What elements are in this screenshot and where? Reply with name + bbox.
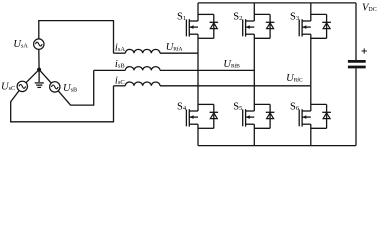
wire: node to UsB [39, 70, 51, 84]
wire: leg3 source to phase C [310, 34, 312, 86]
AC source UsB [50, 82, 60, 92]
svg-text:URfC: URfC [286, 73, 303, 84]
svg-text:S2: S2 [233, 12, 242, 23]
wire: phase C left segment [114, 85, 126, 87]
transistor S6 [299, 109, 311, 126]
capacitor C (DC link) [348, 3, 366, 146]
svg-text:S1: S1 [177, 12, 186, 23]
svg-text:VDC: VDC [362, 2, 377, 13]
wire: leg1 midpoint down to S4 [197, 53, 199, 111]
wire: DC+ top rail [198, 2, 356, 4]
wire: UsB down to feeder of phase B [58, 70, 93, 105]
svg-text:S6: S6 [290, 101, 300, 112]
svg-text:S3: S3 [290, 12, 300, 23]
svg-text:S4: S4 [177, 101, 187, 112]
ground [35, 70, 44, 88]
AC source UsA [34, 39, 44, 49]
inductor LB [125, 67, 160, 71]
wire: node to UsC [26, 70, 39, 83]
wire: phase A right segment [160, 52, 198, 54]
wire: leg1 drain drop [197, 3, 199, 21]
wire: S4 source to bottom rail [197, 124, 199, 145]
node: star point [37, 68, 41, 72]
inductor LA [125, 49, 160, 53]
diode D3 [311, 14, 331, 38]
diode D5 [254, 104, 274, 128]
diode D1 [198, 14, 218, 38]
wire: UsA bottom lead to star node [38, 49, 40, 69]
transistor S1 [186, 19, 198, 36]
svg-text:isC: isC [115, 75, 125, 86]
label + polarity [362, 48, 367, 53]
svg-text:isB: isB [115, 59, 125, 70]
wire: phase C right segment [160, 85, 311, 87]
AC source UsC [17, 81, 27, 91]
svg-text:UsA: UsA [13, 39, 28, 50]
wire: S6 source to bottom rail [310, 124, 312, 145]
wire: leg1 source to phase A [197, 34, 199, 53]
svg-text:UsC: UsC [1, 82, 15, 93]
svg-text:isA: isA [115, 43, 125, 54]
wire: phase B right segment [160, 69, 254, 71]
svg-text:URfA: URfA [166, 42, 183, 53]
transistor S3 [299, 19, 311, 36]
wire: S5 source to bottom rail [253, 124, 255, 145]
wire: phase B left segment [94, 69, 126, 71]
wire: phase A left segment [114, 52, 126, 54]
diode D2 [254, 14, 274, 38]
wire: leg2 source to phase B [253, 34, 255, 70]
svg-text:S5: S5 [233, 101, 243, 112]
transistor S4 [186, 109, 198, 126]
svg-text:UsB: UsB [63, 83, 77, 94]
transistor S2 [243, 19, 255, 36]
wire: UsA top lead up and over to phase A [39, 21, 114, 54]
wire: leg2 midpoint down to S5 [253, 70, 255, 111]
wire: leg2 drain drop [253, 3, 255, 21]
svg-text:URfB: URfB [223, 59, 240, 70]
wire: DC- bottom rail [198, 145, 356, 147]
wire: leg3 drain drop [310, 3, 312, 21]
wire: leg3 midpoint down to S6 [310, 86, 312, 111]
wire: UsC down to bottom feeder of phase C [11, 86, 114, 122]
inductor LC [125, 82, 160, 86]
transistor S5 [243, 109, 255, 126]
diode D4 [198, 104, 218, 128]
diode D6 [311, 104, 331, 128]
